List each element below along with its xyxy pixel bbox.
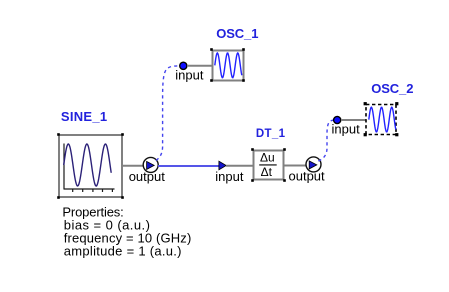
svg-text:output: output [129, 169, 166, 184]
svg-text:OSC_2: OSC_2 [371, 81, 413, 96]
wire blue signal line to DT_1 [158, 165, 219, 167]
signal generator SINE_1 [57, 133, 124, 199]
oscilloscope OSC_1 [210, 48, 245, 82]
node input of OSC_2 [334, 116, 366, 123]
probe wire SINE_1 output to OSC_1 input (dashed) [156, 66, 180, 160]
node input of OSC_1 [180, 62, 212, 69]
svg-text:output: output [289, 169, 326, 184]
svg-text:SINE_1: SINE_1 [61, 109, 107, 124]
wire SINE_1 box to output port [122, 165, 143, 167]
svg-text:OSC_1: OSC_1 [216, 26, 258, 41]
svg-text:input: input [215, 169, 244, 184]
input port arrow of DT_1 [219, 161, 226, 170]
svg-text:input: input [332, 122, 361, 137]
differentiator DT_1 [251, 148, 286, 182]
wire DT_1 box to output port [285, 165, 307, 167]
oscilloscope OSC_2 (selected, dashed border) [364, 102, 399, 136]
svg-text:input: input [175, 68, 204, 83]
svg-text:Δu: Δu [260, 151, 275, 165]
properties annotation [62, 204, 191, 258]
output port of SINE_1 [143, 157, 158, 172]
svg-text:DT_1: DT_1 [256, 128, 286, 140]
output port of DT_1 [306, 157, 321, 172]
svg-text:amplitude = 1 (a.u.): amplitude = 1 (a.u.) [64, 243, 182, 258]
svg-text:Δt: Δt [261, 165, 273, 179]
probe wire DT_1 output to OSC_2 input (dashed) [318, 120, 334, 161]
wire arrow to DT_1 box [226, 165, 253, 167]
